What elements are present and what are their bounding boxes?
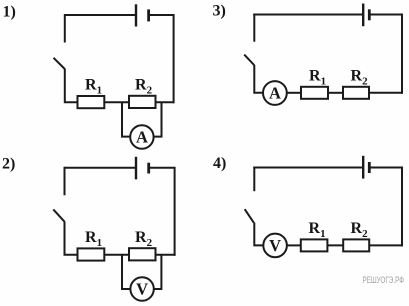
resistor R1 box	[78, 96, 105, 108]
resistor R1 box (circuit 3)	[301, 87, 328, 99]
wire: left side upper (to switch contact)	[253, 14, 255, 42]
wire: R2 to right side (circuit 2)	[156, 254, 176, 256]
battery GB1 long plate	[135, 4, 137, 26]
resistor R2 box	[129, 96, 156, 108]
ammeter A3 circle	[263, 81, 287, 105]
svg-text:R1: R1	[85, 229, 102, 249]
wire: R2 to right side (circuit 3)	[369, 92, 403, 94]
svg-text:4): 4)	[213, 155, 226, 172]
resistor R1 box (circuit 4)	[301, 239, 328, 251]
battery GB3 long plate	[362, 4, 364, 27]
wire: battery to top-right corner and down right side	[149, 15, 174, 103]
wire: ammeter to R1	[287, 92, 301, 94]
svg-text:R1: R1	[85, 76, 102, 96]
battery GB2 long plate	[135, 157, 137, 180]
wire: R1 to R2	[104, 101, 129, 103]
battery GB4 long plate	[362, 156, 364, 179]
svg-text:1): 1)	[3, 3, 16, 20]
battery GB1 short plate	[147, 9, 150, 21]
wire: top left segment to battery	[64, 14, 135, 16]
voltmeter V2 circle	[130, 277, 153, 300]
svg-text:R2: R2	[351, 220, 369, 240]
svg-text:R2: R2	[135, 229, 153, 249]
wire: left side upper (to switch contact)	[64, 14, 66, 43]
wire: battery to top-right corner and down right side	[369, 168, 402, 247]
wire: ammeter branch right drop	[154, 102, 162, 136]
wire: voltmeter to R1	[287, 244, 301, 246]
svg-text:R1: R1	[309, 68, 326, 88]
svg-text:2): 2)	[2, 155, 15, 172]
wire: voltmeter branch right drop	[154, 255, 162, 289]
wire: left side lower (switch to bottom)	[65, 69, 78, 103]
wire: left side upper (to switch contact)	[253, 167, 255, 192]
wire: R1 to R2 (circuit 4)	[327, 244, 343, 246]
wire: R1 to R2 (circuit 3)	[328, 92, 343, 94]
wire: top left segment to battery	[253, 14, 362, 16]
wire: R2 to right side	[156, 101, 175, 103]
wire: battery to top-right corner and down right side	[149, 168, 175, 256]
switch S2 blade (open)	[53, 209, 64, 221]
wire: left side lower (switch to bottom)	[254, 223, 263, 246]
wire: ammeter branch left drop	[122, 102, 130, 136]
wire: voltmeter branch left drop	[122, 255, 131, 289]
battery GB4 short plate	[368, 162, 371, 173]
svg-text:R2: R2	[135, 76, 153, 96]
svg-text:A: A	[269, 84, 281, 103]
wire: R1 to R2 (circuit 2)	[104, 254, 129, 256]
resistor R2 box (circuit 4)	[343, 239, 369, 251]
ammeter A1 circle	[130, 125, 153, 148]
wire: top left segment to battery	[64, 167, 135, 169]
battery GB3 short plate	[368, 9, 371, 20]
svg-text:R1: R1	[309, 220, 326, 240]
wire: top left segment to battery	[253, 167, 362, 169]
switch S4 blade (open)	[245, 209, 254, 223]
battery GB2 short plate	[147, 163, 150, 174]
svg-text:R2: R2	[351, 68, 369, 88]
resistor R2 box (circuit 2)	[129, 248, 156, 260]
switch S1 blade (open)	[54, 58, 65, 69]
svg-text:V: V	[136, 280, 148, 299]
wire: left side upper (to switch contact)	[64, 167, 66, 196]
svg-text:РЕШУОГЭ.РФ: РЕШУОГЭ.РФ	[363, 275, 405, 285]
wire: left side lower (switch to bottom)	[65, 222, 78, 255]
wire: battery to top-right corner and down right side	[369, 15, 402, 94]
resistor R2 box (circuit 3)	[343, 87, 369, 99]
svg-text:V: V	[269, 236, 281, 255]
wire: R2 to right side (circuit 4)	[369, 244, 403, 246]
svg-text:A: A	[136, 128, 148, 147]
resistor R1 box (circuit 2)	[78, 248, 105, 260]
wire: left side lower (switch to bottom)	[254, 65, 262, 93]
svg-text:3): 3)	[213, 3, 226, 20]
voltmeter V4 circle	[263, 234, 287, 258]
switch S3 blade (open)	[244, 55, 254, 66]
